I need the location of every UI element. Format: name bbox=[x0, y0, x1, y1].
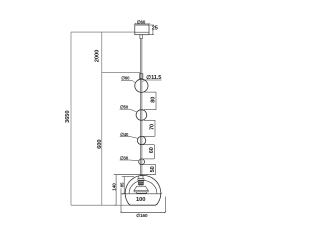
gap bracket 70 bbox=[144, 119, 155, 121]
dim ø160 bbox=[120, 188, 122, 212]
svg-text:80: 80 bbox=[151, 97, 157, 103]
svg-text:70: 70 bbox=[150, 124, 156, 130]
ball 2 bbox=[136, 110, 147, 121]
canopy stem bbox=[140, 35, 142, 39]
svg-text:25: 25 bbox=[152, 25, 158, 31]
canopy body bbox=[135, 25, 149, 35]
svg-text:∅40: ∅40 bbox=[120, 132, 129, 137]
svg-text:600: 600 bbox=[97, 140, 103, 149]
canopy flange line bbox=[135, 31, 149, 33]
dim ø11.5 leader bbox=[145, 79, 162, 81]
dim line 2000/600 vertical bbox=[101, 32, 103, 205]
gap bracket 50 bbox=[143, 163, 156, 165]
globe inner arc bbox=[129, 180, 157, 193]
dim 25 canopy bbox=[149, 24, 154, 26]
dim ø60 canopy line bbox=[135, 23, 149, 25]
svg-text:60: 60 bbox=[149, 147, 155, 153]
bulb cone bbox=[134, 186, 148, 190]
label ø30 leader bbox=[120, 159, 130, 161]
ceiling reference line bbox=[71, 31, 135, 33]
gap bracket 60 bbox=[143, 144, 154, 146]
svg-text:∅11.5: ∅11.5 bbox=[146, 74, 161, 81]
svg-text:∅160: ∅160 bbox=[136, 213, 148, 218]
svg-text:50: 50 bbox=[150, 166, 156, 172]
wire-top reference line bbox=[102, 71, 141, 73]
connector bbox=[139, 74, 143, 79]
dim line 3650 vertical bbox=[70, 32, 72, 205]
dim 85 bbox=[123, 177, 125, 194]
label ø60 leader bbox=[121, 80, 132, 82]
svg-text:100: 100 bbox=[136, 197, 145, 203]
gap bracket 80 bbox=[144, 91, 156, 93]
wire bbox=[140, 39, 142, 176]
bottom reference line bbox=[71, 204, 130, 206]
svg-text:∅60: ∅60 bbox=[137, 19, 146, 24]
label ø40 leader bbox=[120, 136, 131, 138]
svg-text:∅30: ∅30 bbox=[120, 155, 129, 160]
dim 140 bbox=[115, 175, 117, 205]
svg-text:2000: 2000 bbox=[94, 50, 100, 63]
ball 4 bbox=[139, 159, 145, 165]
svg-text:3650: 3650 bbox=[65, 111, 71, 124]
dim 100 line bbox=[123, 193, 161, 195]
socket neck bbox=[140, 185, 142, 187]
svg-text:∅60: ∅60 bbox=[121, 76, 130, 81]
bulb face band bbox=[134, 190, 148, 192]
label ø50 leader bbox=[120, 108, 130, 110]
text labels bbox=[65, 19, 161, 217]
svg-text:140: 140 bbox=[112, 183, 117, 191]
svg-text:∅50: ∅50 bbox=[120, 105, 129, 110]
svg-text:85: 85 bbox=[119, 182, 124, 187]
fitting collar bbox=[138, 179, 144, 181]
ball 1 bbox=[135, 79, 148, 92]
globe outer bbox=[125, 175, 161, 205]
ball 3 bbox=[137, 136, 145, 144]
fitting nut bbox=[139, 176, 143, 179]
socket bbox=[138, 180, 143, 184]
bulb bottom lip bbox=[137, 192, 147, 193]
